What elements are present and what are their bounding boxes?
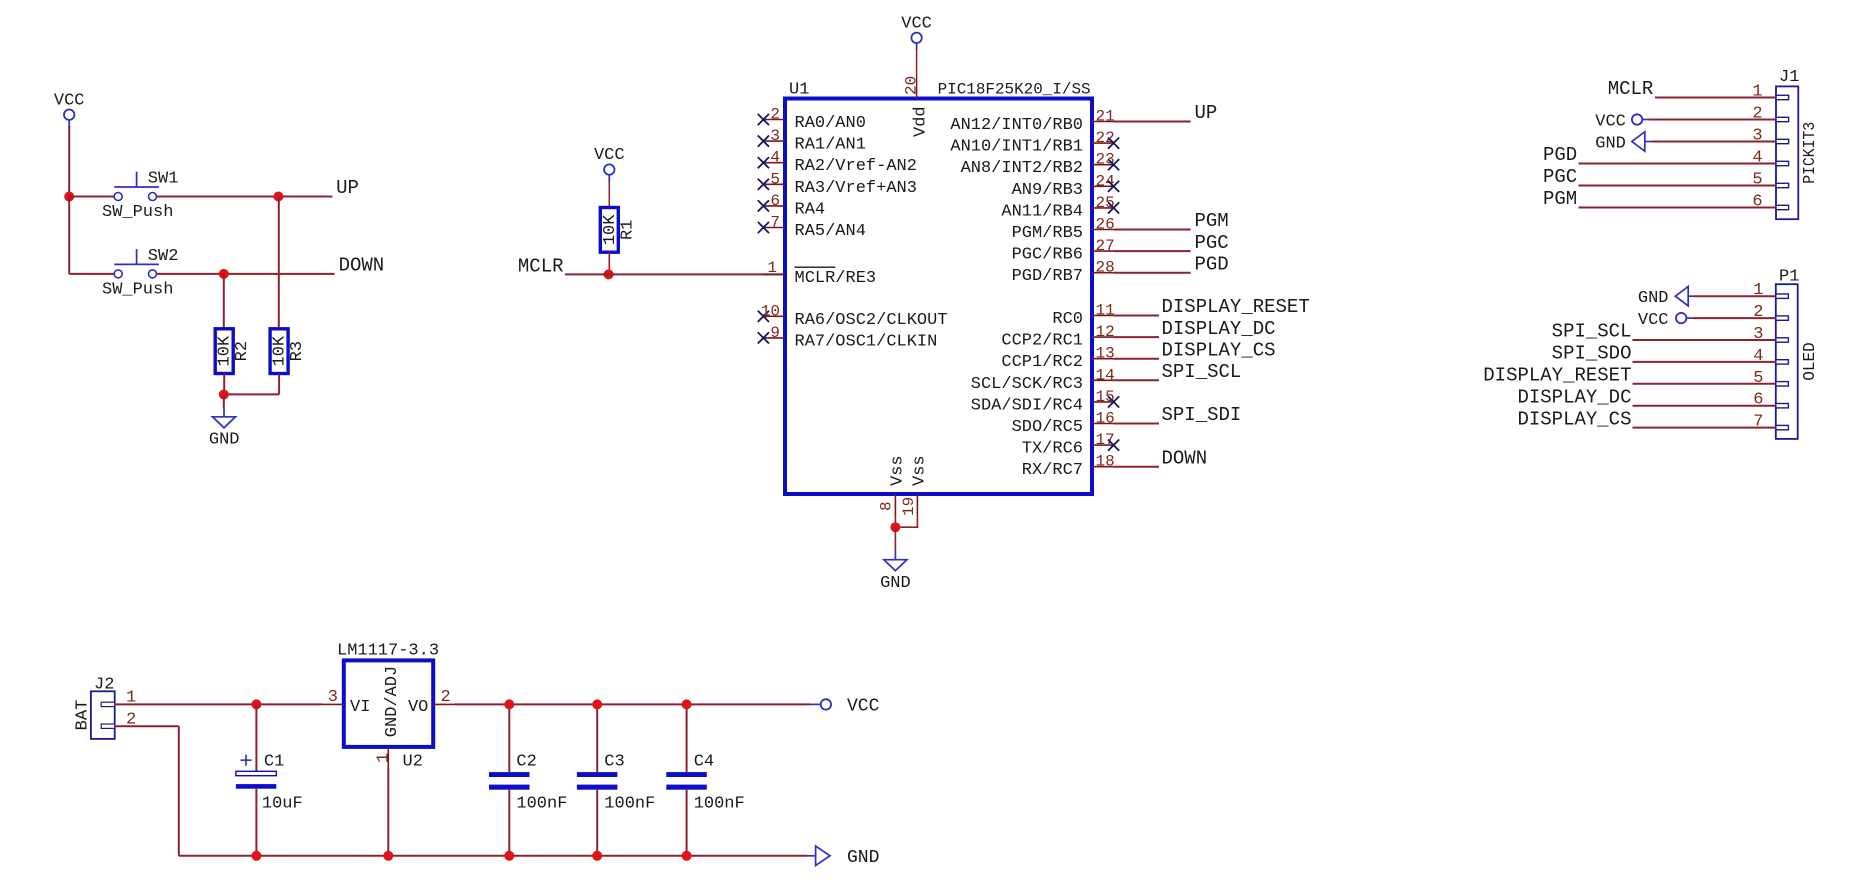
svg-text:7: 7 <box>770 214 780 232</box>
wire VCC rail to C3 <box>596 704 598 772</box>
svg-text:C1: C1 <box>264 753 284 772</box>
junction VCC/SW1/SW2 branch <box>64 192 74 202</box>
svg-text:DISPLAY_RESET: DISPLAY_RESET <box>1483 365 1631 387</box>
svg-text:1: 1 <box>374 753 393 763</box>
wire pin 26 to PGM label <box>1114 229 1191 231</box>
svg-text:C2: C2 <box>516 753 536 772</box>
junction GND rail/C2 <box>504 851 514 861</box>
wire DOWN junction down to R2 <box>223 274 225 329</box>
switch SW1 (SW_Push) <box>102 170 178 223</box>
svg-text:GND: GND <box>209 431 240 450</box>
net label UP <box>336 177 359 199</box>
svg-text:SCL/SCK/RC3: SCL/SCK/RC3 <box>971 375 1083 394</box>
wire pin 28 to PGD label <box>1114 272 1191 274</box>
value OLED (rotated) <box>1801 342 1820 381</box>
svg-text:6: 6 <box>1752 193 1762 212</box>
wire C4 to GND rail <box>686 790 688 856</box>
pin 1 MCLR/RE3 (U1 left) with overbar <box>763 259 876 288</box>
wire UP junction down to R3 <box>278 197 280 329</box>
pin 24 AN9/RB3 (U1 right, no-connect) <box>1012 172 1120 200</box>
reference U2 <box>403 753 423 772</box>
power symbol GND (P1 pin 1) <box>1638 287 1695 309</box>
svg-text:DISPLAY_RESET: DISPLAY_RESET <box>1162 296 1310 318</box>
op-amp U1 body (PIC18F25K20 outline) <box>785 99 1092 495</box>
svg-text:10K: 10K <box>601 214 620 245</box>
svg-text:VCC: VCC <box>901 15 932 34</box>
switch SW2 (SW_Push) <box>102 247 178 300</box>
wire VCC to J1 pin 2 <box>1649 119 1776 121</box>
wire VO to VCC port <box>455 703 810 705</box>
value BAT (rotated) <box>74 700 93 731</box>
pin 5 RA3/Vref+AN3 (U1 left, no-connect) <box>758 170 917 198</box>
svg-text:5: 5 <box>1753 369 1763 388</box>
connector J2 body <box>91 691 115 739</box>
wire pin 19 down <box>916 516 918 528</box>
svg-text:DISPLAY_CS: DISPLAY_CS <box>1517 408 1631 430</box>
svg-text:BAT: BAT <box>74 700 93 731</box>
net label DISPLAY_DC <box>1162 318 1276 340</box>
junction VCC rail/C2 <box>504 699 514 709</box>
junction VCC rail/C4 <box>682 699 692 709</box>
svg-text:GND/ADJ: GND/ADJ <box>383 666 402 737</box>
net label MCLR (J1) <box>1608 78 1654 100</box>
wire junction to SW1 pin 1 <box>69 196 114 198</box>
pin 17 TX/RC6 (U1 right, no-connect) <box>1022 431 1119 459</box>
svg-text:PGM: PGM <box>1543 188 1577 210</box>
svg-text:DOWN: DOWN <box>339 254 385 276</box>
power symbol GND (J1 pin 3) <box>1595 132 1652 154</box>
net label PGM (J1) <box>1543 188 1577 210</box>
wire R3 to GND junction <box>224 393 279 395</box>
pin 6 (J1) <box>1752 193 1788 212</box>
wire C1 to GND rail <box>255 789 257 856</box>
pin 7 (P1) <box>1753 413 1788 432</box>
pin 20 Vdd (U1 top) <box>903 76 931 137</box>
svg-text:P1: P1 <box>1779 268 1799 287</box>
resistor R3 10K <box>270 329 307 374</box>
wire PGC to J1 pin 5 <box>1579 185 1777 187</box>
svg-text:VCC: VCC <box>54 92 85 111</box>
svg-text:VCC: VCC <box>1638 311 1669 330</box>
pin 10 RA6/OSC2/CLKOUT (U1 left, no-connect) <box>758 302 948 330</box>
wire GND to J1 pin 3 <box>1652 141 1776 143</box>
wire SW1 pin 2 to UP label <box>156 196 332 198</box>
svg-text:16: 16 <box>1096 410 1115 428</box>
net label PGC (J1) <box>1543 166 1577 188</box>
svg-text:AN9/RB3: AN9/RB3 <box>1012 181 1083 200</box>
power symbol VCC (P1 pin 2) <box>1638 311 1693 330</box>
pin 6 RA4 (U1 left, no-connect) <box>758 192 825 220</box>
pin 9 RA7/OSC1/CLKIN (U1 left, no-connect) <box>758 324 938 352</box>
pin 22 AN10/INT1/RB1 (U1 right, no-connect) <box>950 129 1119 157</box>
wire pin 21 to UP label <box>1114 121 1191 123</box>
pin 1 (P1) <box>1753 281 1788 300</box>
net label DISPLAY_CS <box>1162 339 1276 361</box>
pin 2 (P1) <box>1753 303 1788 322</box>
svg-text:CCP2/RC1: CCP2/RC1 <box>1001 332 1083 351</box>
svg-text:RA6/OSC2/CLKOUT: RA6/OSC2/CLKOUT <box>795 311 948 330</box>
svg-text:100nF: 100nF <box>694 795 745 814</box>
svg-text:J1: J1 <box>1779 68 1799 87</box>
net label DISPLAY_RESET (P1) <box>1483 365 1631 387</box>
svg-text:3: 3 <box>770 127 780 145</box>
wire junction to GND symbol <box>223 395 225 409</box>
net label DOWN <box>339 254 385 276</box>
ground symbol (R2/R3) <box>213 408 236 428</box>
wire pin 16 to SPI_SDI label <box>1114 423 1159 425</box>
svg-text:12: 12 <box>1096 323 1115 341</box>
power symbol VCC (U1 Vdd) <box>901 15 932 50</box>
svg-text:VCC: VCC <box>847 696 880 716</box>
pin 26 PGM/RB5 (U1 right) <box>1012 216 1115 244</box>
reference P1 <box>1779 268 1799 287</box>
reference J2 <box>94 676 114 695</box>
svg-text:RX/RC7: RX/RC7 <box>1022 461 1083 480</box>
pin 18 RX/RC7 (U1 right) <box>1022 453 1115 481</box>
svg-text:13: 13 <box>1096 345 1115 363</box>
svg-text:1: 1 <box>1753 281 1763 300</box>
svg-text:100nF: 100nF <box>604 795 655 814</box>
svg-text:18: 18 <box>1096 453 1115 471</box>
pin 21 AN12/INT0/RB0 (U1 right) <box>950 108 1114 136</box>
pin 2 (J2) <box>101 710 136 729</box>
svg-text:AN12/INT0/RB0: AN12/INT0/RB0 <box>950 116 1083 135</box>
pin 3 (J1) <box>1752 127 1788 146</box>
svg-text:Vdd: Vdd <box>912 106 931 137</box>
svg-text:RA3/Vref+AN3: RA3/Vref+AN3 <box>795 179 917 198</box>
svg-text:RA7/OSC1/CLKIN: RA7/OSC1/CLKIN <box>795 332 938 351</box>
svg-text:10K: 10K <box>216 335 235 366</box>
pin 1 (J1) <box>1752 83 1788 102</box>
svg-text:8: 8 <box>878 501 896 511</box>
svg-text:GND: GND <box>1638 289 1669 308</box>
svg-text:100nF: 100nF <box>516 795 567 814</box>
svg-text:R1: R1 <box>618 220 637 240</box>
wire PGD to J1 pin 4 <box>1579 163 1777 165</box>
svg-text:C4: C4 <box>694 753 714 772</box>
svg-text:RA1/AN1: RA1/AN1 <box>795 136 866 155</box>
svg-text:U2: U2 <box>403 753 423 772</box>
wire junction to GND symbol <box>894 527 896 551</box>
svg-text:19: 19 <box>900 497 918 516</box>
svg-text:VO: VO <box>408 698 428 717</box>
svg-text:1: 1 <box>1752 83 1762 102</box>
svg-text:9: 9 <box>770 324 780 342</box>
svg-text:OLED: OLED <box>1801 342 1820 381</box>
net label SPI_SCL (P1) <box>1552 321 1632 343</box>
pin 25 AN11/RB4 (U1 right, no-connect) <box>1001 194 1119 222</box>
svg-text:J2: J2 <box>94 676 114 695</box>
wire pin 18 to DOWN label <box>1114 466 1159 468</box>
net label PGM <box>1195 210 1229 232</box>
svg-text:3: 3 <box>1752 127 1762 146</box>
svg-text:Vss: Vss <box>889 455 908 486</box>
wire U2 pin 1 to GND rail <box>387 769 389 856</box>
pin 13 CCP1/RC2 (U1 right) <box>1001 345 1114 373</box>
svg-text:Vss: Vss <box>911 455 930 486</box>
ground label GND (U1) <box>880 574 911 593</box>
svg-text:AN8/INT2/RB2: AN8/INT2/RB2 <box>961 159 1083 178</box>
svg-text:RA5/AN4: RA5/AN4 <box>795 222 866 241</box>
wire PGM to J1 pin 6 <box>1579 207 1777 209</box>
net label DOWN <box>1162 447 1208 469</box>
wire DISPLAY_DC to P1 <box>1633 405 1776 407</box>
net label PGC <box>1195 232 1229 254</box>
svg-text:2: 2 <box>1753 303 1763 322</box>
capacitor C1 10uF (polarized) <box>236 753 303 814</box>
junction Vss/GND <box>890 522 900 532</box>
reference U1 <box>789 81 809 100</box>
wire VCC to P1 pin 2 <box>1693 317 1776 319</box>
wire VCC rail to C2 <box>508 704 510 772</box>
pin 28 PGD/RB7 (U1 right) <box>1012 259 1115 287</box>
svg-text:PGD: PGD <box>1195 253 1229 275</box>
pin 11 RC0 (U1 right) <box>1052 302 1114 330</box>
power port VCC (output) <box>810 696 880 716</box>
pin 6 (P1) <box>1753 391 1788 410</box>
wire J2 pin 1 to U2 VI <box>115 703 322 705</box>
svg-text:RA2/Vref-AN2: RA2/Vref-AN2 <box>795 157 917 176</box>
pin 1 (J2) <box>101 689 136 708</box>
wire VCC to U1 pin 20 <box>916 49 918 77</box>
power symbol VCC (J1 pin 2) <box>1595 113 1649 132</box>
svg-text:LM1117-3.3: LM1117-3.3 <box>337 642 439 661</box>
capacitor C3 100nF <box>577 753 655 814</box>
wire branch down to SW2 row <box>68 196 70 274</box>
wire MCLR label to U1 pin 1 <box>565 273 785 275</box>
svg-text:SDO/RC5: SDO/RC5 <box>1012 418 1083 437</box>
capacitor C4 100nF <box>666 753 744 814</box>
svg-text:20: 20 <box>903 76 921 95</box>
net label SPI_SDI <box>1162 404 1242 426</box>
wire VCC stem to SW1 row <box>68 126 70 197</box>
pin 4 (P1) <box>1753 347 1788 366</box>
pin 1 GND/ADJ (U2) <box>374 666 402 769</box>
wire pin 8 to GND junction <box>894 516 896 528</box>
connector P1 body <box>1776 284 1798 439</box>
svg-text:UP: UP <box>1195 102 1218 124</box>
pin 12 CCP2/RC1 (U1 right) <box>1001 323 1114 351</box>
wire C3 to GND rail <box>596 790 598 856</box>
wire J2 pin 2 right <box>115 725 179 727</box>
net label PGD (J1) <box>1543 144 1577 166</box>
wire pin 19 to GND junction <box>895 526 918 528</box>
svg-text:2: 2 <box>1752 105 1762 124</box>
svg-text:14: 14 <box>1096 366 1115 384</box>
net label SPI_SCL <box>1162 361 1242 383</box>
net label DISPLAY_RESET <box>1162 296 1310 318</box>
wire DISPLAY_RESET to P1 <box>1633 383 1776 385</box>
pin 4 RA2/Vref-AN2 (U1 left, no-connect) <box>758 149 917 177</box>
svg-text:SPI_SCL: SPI_SCL <box>1162 361 1242 383</box>
svg-text:10K: 10K <box>271 335 290 366</box>
pin 16 SDO/RC5 (U1 right) <box>1012 410 1115 438</box>
svg-text:SDA/SDI/RC4: SDA/SDI/RC4 <box>971 396 1083 415</box>
svg-text:PGC/RB6: PGC/RB6 <box>1012 246 1083 265</box>
wire pin 14 to SPI_SCL label <box>1114 379 1159 381</box>
svg-text:7: 7 <box>1753 413 1763 432</box>
pin 23 AN8/INT2/RB2 (U1 right, no-connect) <box>961 151 1120 179</box>
net label UP <box>1195 102 1218 124</box>
pin 15 SDA/SDI/RC4 (U1 right, no-connect) <box>971 388 1119 416</box>
wire pin 13 to DISPLAY_CS label <box>1114 358 1159 360</box>
svg-text:4: 4 <box>1752 149 1762 168</box>
svg-text:SPI_SDO: SPI_SDO <box>1552 343 1632 365</box>
svg-text:SW_Push: SW_Push <box>102 280 173 299</box>
pin 3 VI (U2) <box>322 688 370 717</box>
svg-text:2: 2 <box>770 106 780 124</box>
wire MCLR to J1 pin 1 <box>1655 97 1776 99</box>
junction GND rail/C4 <box>682 851 692 861</box>
svg-text:R3: R3 <box>288 341 307 361</box>
pin 3 RA1/AN1 (U1 left, no-connect) <box>758 127 866 155</box>
wire R3 bottom leg <box>278 374 280 395</box>
junction DOWN net <box>219 269 229 279</box>
svg-text:RA0/AN0: RA0/AN0 <box>795 114 866 133</box>
svg-text:UP: UP <box>336 177 359 199</box>
svg-text:5: 5 <box>770 170 780 188</box>
svg-text:28: 28 <box>1096 259 1115 277</box>
junction GND rail/C3 <box>592 851 602 861</box>
wire VCC to R1 <box>608 181 610 208</box>
power port GND (rail end) <box>807 846 879 868</box>
wire DISPLAY_CS to P1 <box>1633 427 1776 429</box>
junction C1/GND rail <box>251 851 261 861</box>
svg-text:GND: GND <box>847 848 879 868</box>
wire junction to C1 <box>255 704 257 771</box>
svg-text:C3: C3 <box>604 753 624 772</box>
wire SW2 pin 2 to DOWN label <box>156 273 335 275</box>
svg-text:5: 5 <box>1752 171 1762 190</box>
ground symbol (U1) <box>884 551 907 571</box>
pin 27 PGC/RB6 (U1 right) <box>1012 237 1115 265</box>
net label SPI_SDO (P1) <box>1552 343 1632 365</box>
svg-text:DISPLAY_DC: DISPLAY_DC <box>1162 318 1276 340</box>
pin 14 SCL/SCK/RC3 (U1 right) <box>971 366 1115 394</box>
svg-text:AN10/INT1/RB1: AN10/INT1/RB1 <box>950 138 1083 157</box>
svg-text:27: 27 <box>1096 237 1115 255</box>
pin 4 (J1) <box>1752 149 1788 168</box>
wire branch to SW2 pin 1 <box>69 273 114 275</box>
svg-text:2: 2 <box>441 688 451 707</box>
svg-text:MCLR: MCLR <box>518 256 564 278</box>
connector J1 body <box>1776 86 1798 219</box>
svg-text:R2: R2 <box>233 341 252 361</box>
svg-text:6: 6 <box>770 192 780 210</box>
pin 19 Vss (U1 bottom) <box>900 455 930 516</box>
svg-text:PGD/RB7: PGD/RB7 <box>1012 267 1083 286</box>
svg-text:PGD: PGD <box>1543 144 1577 166</box>
resistor R1 10K <box>600 208 637 253</box>
net label DISPLAY_DC (P1) <box>1517 386 1631 408</box>
svg-text:DISPLAY_CS: DISPLAY_CS <box>1162 339 1276 361</box>
wire GND to P1 pin 1 <box>1695 295 1776 297</box>
resistor R2 10K <box>215 329 252 374</box>
wire SPI_SCL to P1 <box>1633 339 1776 341</box>
wire pin 27 to PGC label <box>1114 250 1191 252</box>
value LM1117-3.3 <box>337 642 439 661</box>
svg-text:SPI_SDI: SPI_SDI <box>1162 404 1242 426</box>
svg-text:GND: GND <box>880 574 911 593</box>
junction MCLR/R1 <box>604 269 614 279</box>
wire pin 12 to DISPLAY_DC label <box>1114 336 1159 338</box>
svg-text:PGC: PGC <box>1195 232 1229 254</box>
regulator U2 body (LM1117-3.3) <box>344 660 433 747</box>
svg-text:SW1: SW1 <box>148 170 179 189</box>
svg-text:DOWN: DOWN <box>1162 447 1208 469</box>
svg-text:4: 4 <box>1753 347 1763 366</box>
svg-text:PGM/RB5: PGM/RB5 <box>1012 224 1083 243</box>
wire C2 to GND rail <box>508 790 510 856</box>
svg-text:U1: U1 <box>789 81 809 100</box>
junction U2/GND rail <box>383 851 393 861</box>
svg-text:3: 3 <box>328 688 338 707</box>
net label MCLR <box>518 256 564 278</box>
power symbol VCC (switch branch) <box>54 92 85 127</box>
svg-text:MCLR: MCLR <box>1608 78 1654 100</box>
value PIC18F25K20_I/SS <box>938 81 1091 99</box>
capacitor C2 100nF <box>489 753 567 814</box>
wire J2 pin 2 down to GND rail <box>178 726 180 856</box>
svg-text:10: 10 <box>761 302 780 320</box>
value PICKIT3 (rotated) <box>1801 122 1820 184</box>
svg-text:SPI_SCL: SPI_SCL <box>1552 321 1632 343</box>
pin 2 (J1) <box>1752 105 1788 124</box>
wire SPI_SDO to P1 <box>1633 361 1776 363</box>
reference J1 <box>1779 68 1799 87</box>
svg-text:26: 26 <box>1096 216 1115 234</box>
net label PGD <box>1195 253 1229 275</box>
wire R2 to GND junction <box>223 374 225 395</box>
pin 2 VO (U2) <box>408 688 455 717</box>
svg-text:RA4: RA4 <box>795 200 826 219</box>
junction R2/R3 GND <box>219 390 229 400</box>
pin 8 Vss (U1 bottom) <box>878 455 908 515</box>
pin 2 RA0/AN0 (U1 left, no-connect) <box>758 106 866 134</box>
junction VCC rail/C3 <box>592 699 602 709</box>
svg-text:PGC: PGC <box>1543 166 1577 188</box>
svg-text:VCC: VCC <box>594 146 625 165</box>
svg-text:AN11/RB4: AN11/RB4 <box>1001 202 1083 221</box>
svg-text:PGM: PGM <box>1195 210 1229 232</box>
svg-text:11: 11 <box>1096 302 1115 320</box>
pin 3 (P1) <box>1753 325 1788 344</box>
svg-text:CCP1/RC2: CCP1/RC2 <box>1001 353 1083 372</box>
svg-text:10uF: 10uF <box>262 795 303 814</box>
svg-text:1: 1 <box>767 259 777 277</box>
wire R1 to MCLR net <box>608 252 610 274</box>
svg-text:GND: GND <box>1595 135 1626 154</box>
junction UP net <box>273 192 283 202</box>
svg-text:SW_Push: SW_Push <box>102 203 173 222</box>
wire VCC rail to C4 <box>686 704 688 772</box>
svg-text:RC0: RC0 <box>1052 310 1083 329</box>
ground label GND (R2/R3) <box>209 431 240 450</box>
svg-text:PICKIT3: PICKIT3 <box>1801 122 1820 184</box>
svg-text:VI: VI <box>350 698 370 717</box>
svg-text:4: 4 <box>770 149 780 167</box>
svg-text:DISPLAY_DC: DISPLAY_DC <box>1517 386 1631 408</box>
pin 5 (J1) <box>1752 171 1788 190</box>
net label DISPLAY_CS (P1) <box>1517 408 1631 430</box>
svg-text:SW2: SW2 <box>148 247 179 266</box>
pin 5 (P1) <box>1753 369 1788 388</box>
svg-text:TX/RC6: TX/RC6 <box>1022 440 1083 459</box>
svg-text:6: 6 <box>1753 391 1763 410</box>
svg-text:VCC: VCC <box>1595 113 1626 132</box>
wire GND rail <box>179 855 807 857</box>
pin 7 RA5/AN4 (U1 left, no-connect) <box>758 214 866 242</box>
